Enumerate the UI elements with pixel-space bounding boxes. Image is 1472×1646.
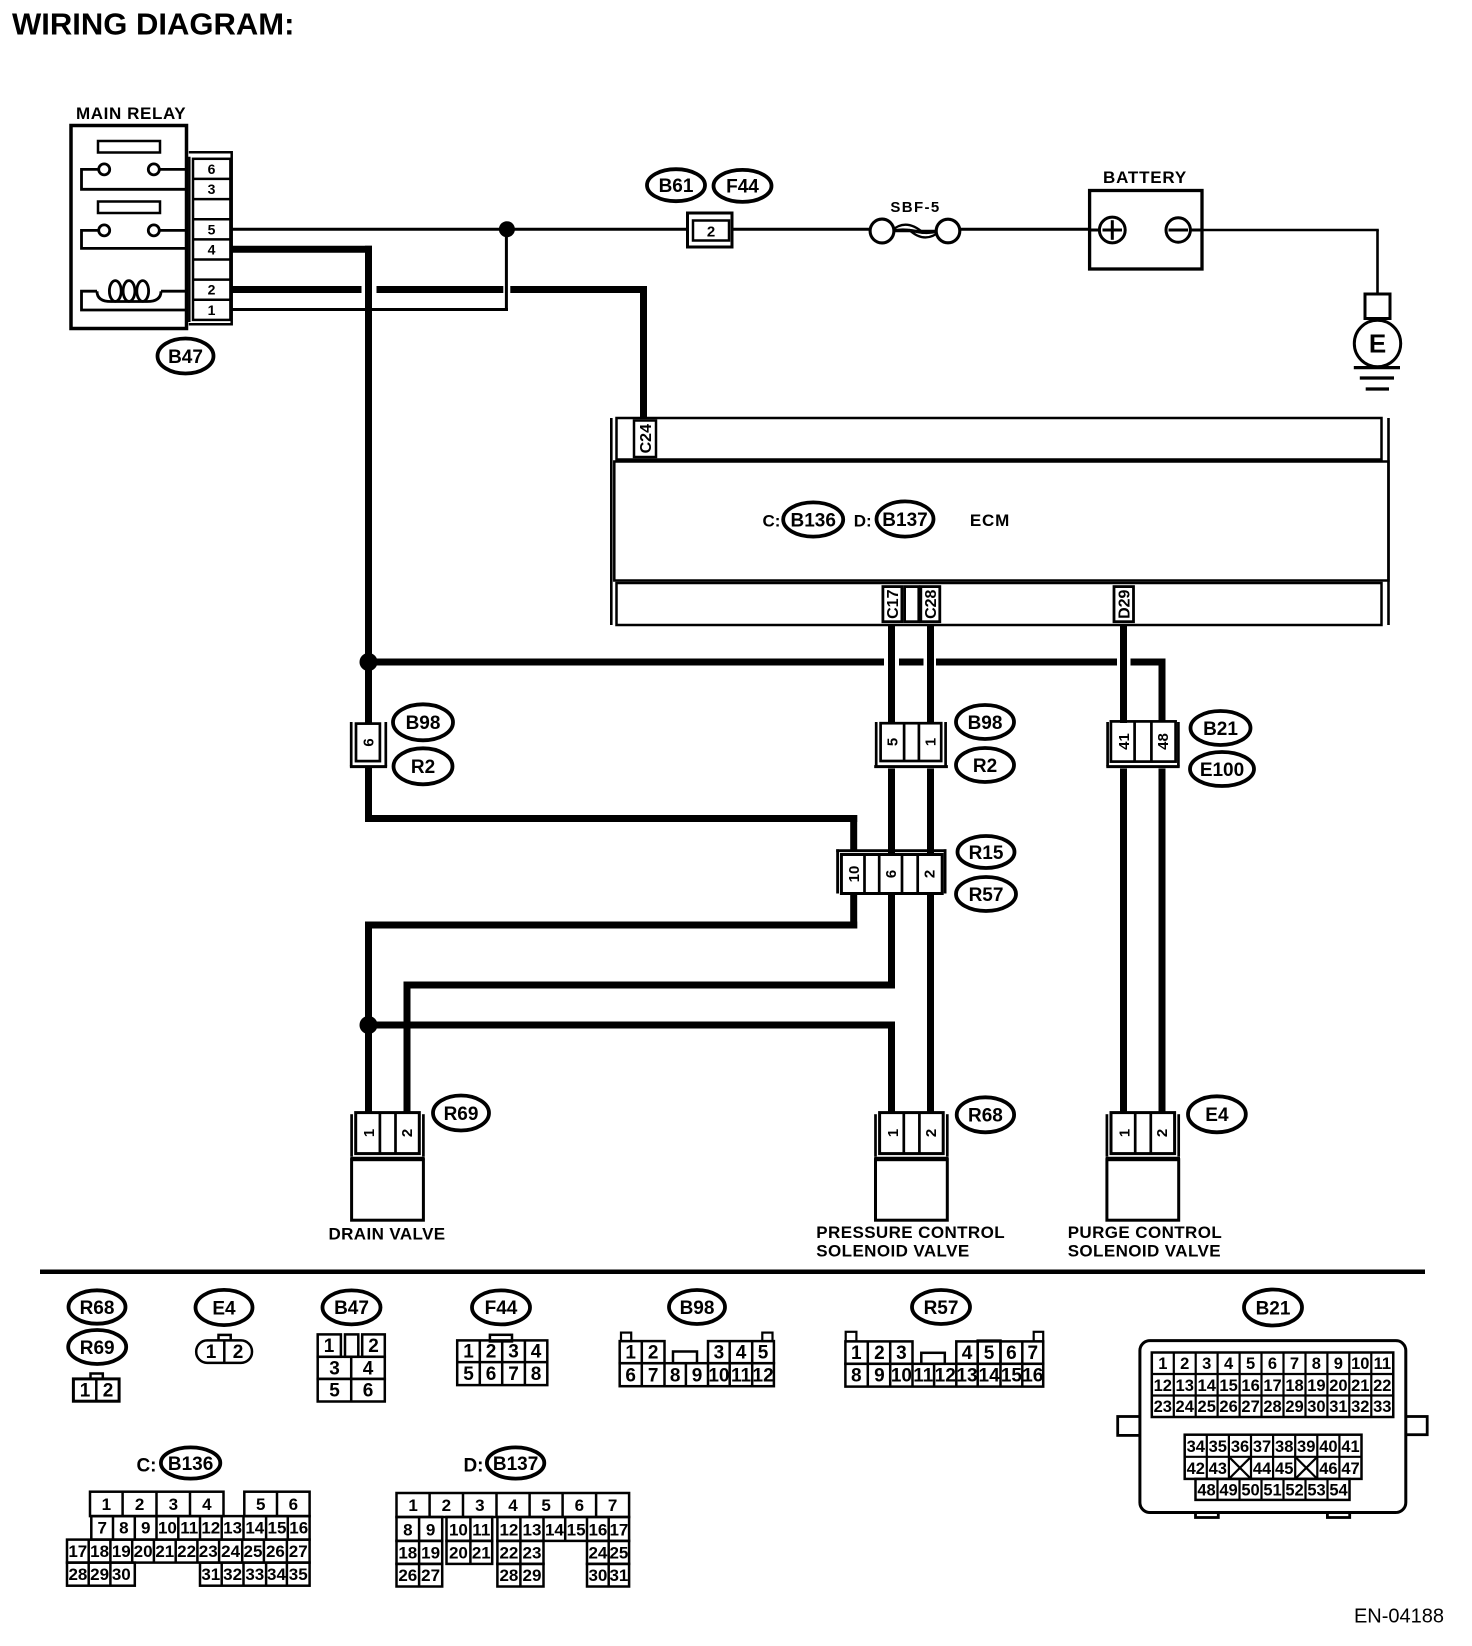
svg-text:2: 2 bbox=[707, 224, 715, 241]
svg-text:35: 35 bbox=[1209, 1438, 1227, 1456]
svg-text:4: 4 bbox=[202, 1495, 212, 1514]
wire relay pin2 to ECM C24 bbox=[232, 286, 647, 418]
svg-text:R57: R57 bbox=[924, 1298, 959, 1319]
svg-text:16: 16 bbox=[289, 1519, 308, 1538]
svg-text:5: 5 bbox=[541, 1496, 550, 1515]
svg-text:54: 54 bbox=[1329, 1481, 1348, 1499]
svg-text:5: 5 bbox=[463, 1364, 474, 1385]
inline connector pins 10/6/2 (R15/R57) bbox=[836, 849, 946, 893]
svg-text:15: 15 bbox=[567, 1520, 586, 1539]
connector B47 pin strip bbox=[189, 152, 232, 324]
svg-text:1: 1 bbox=[324, 1336, 335, 1357]
svg-text:2: 2 bbox=[648, 1343, 659, 1364]
svg-text:3: 3 bbox=[508, 1342, 519, 1363]
svg-text:B137: B137 bbox=[882, 510, 927, 531]
svg-text:SOLENOID VALVE: SOLENOID VALVE bbox=[816, 1242, 969, 1261]
svg-text:BATTERY: BATTERY bbox=[1103, 168, 1187, 187]
svg-text:6: 6 bbox=[625, 1365, 636, 1386]
svg-text:47: 47 bbox=[1341, 1460, 1359, 1478]
svg-text:25: 25 bbox=[609, 1543, 628, 1562]
svg-text:5: 5 bbox=[208, 221, 216, 237]
svg-text:36: 36 bbox=[1231, 1438, 1249, 1456]
svg-text:6: 6 bbox=[1268, 1355, 1277, 1373]
svg-text:22: 22 bbox=[1373, 1377, 1391, 1395]
svg-text:9: 9 bbox=[426, 1520, 435, 1539]
oval E4 (legend) bbox=[196, 1290, 253, 1325]
svg-text:D:: D: bbox=[463, 1456, 483, 1477]
svg-text:8: 8 bbox=[403, 1520, 412, 1539]
svg-text:1: 1 bbox=[361, 1129, 378, 1137]
svg-text:1: 1 bbox=[1116, 1129, 1133, 1137]
svg-text:45: 45 bbox=[1275, 1460, 1293, 1478]
wire relay pin1 bbox=[232, 229, 508, 309]
oval B47 bbox=[158, 339, 214, 374]
svg-text:2: 2 bbox=[368, 1336, 379, 1357]
svg-text:7: 7 bbox=[1290, 1355, 1299, 1373]
svg-text:19: 19 bbox=[1307, 1377, 1325, 1395]
svg-text:2: 2 bbox=[233, 1342, 244, 1363]
svg-text:15: 15 bbox=[1219, 1377, 1237, 1395]
svg-text:R2: R2 bbox=[411, 757, 435, 778]
svg-text:B136: B136 bbox=[790, 510, 835, 531]
svg-text:39: 39 bbox=[1297, 1438, 1315, 1456]
svg-text:7: 7 bbox=[608, 1496, 617, 1515]
svg-text:41: 41 bbox=[1116, 733, 1133, 750]
svg-text:SOLENOID VALVE: SOLENOID VALVE bbox=[1068, 1242, 1221, 1261]
oval R57 (legend) bbox=[912, 1290, 970, 1324]
oval F44 bbox=[714, 170, 772, 202]
oval R2 bbox=[394, 748, 453, 784]
svg-text:R15: R15 bbox=[969, 843, 1004, 864]
wire C28 down bbox=[927, 625, 934, 857]
svg-text:16: 16 bbox=[1022, 1366, 1043, 1387]
svg-text:3: 3 bbox=[208, 181, 216, 197]
svg-text:11: 11 bbox=[472, 1520, 490, 1539]
svg-text:11: 11 bbox=[731, 1365, 752, 1386]
wire pin2(R15) to pressure valve pin2 bbox=[927, 894, 934, 1113]
svg-text:16: 16 bbox=[588, 1520, 607, 1539]
svg-text:27: 27 bbox=[421, 1566, 440, 1585]
svg-text:38: 38 bbox=[1275, 1438, 1293, 1456]
svg-text:4: 4 bbox=[508, 1496, 518, 1515]
svg-text:1: 1 bbox=[102, 1495, 111, 1514]
oval B137 (legend) bbox=[487, 1447, 544, 1478]
svg-text:18: 18 bbox=[90, 1542, 109, 1561]
wire pin6(R15) to drain valve pin2 bbox=[404, 894, 896, 1113]
svg-text:53: 53 bbox=[1307, 1481, 1325, 1499]
svg-text:9: 9 bbox=[874, 1366, 885, 1387]
svg-text:52: 52 bbox=[1285, 1481, 1303, 1499]
svg-text:3: 3 bbox=[169, 1495, 178, 1514]
svg-text:C:: C: bbox=[762, 511, 780, 530]
oval E100 bbox=[1190, 752, 1254, 786]
svg-text:33: 33 bbox=[245, 1565, 264, 1584]
svg-text:1: 1 bbox=[80, 1381, 91, 1402]
svg-text:B98: B98 bbox=[968, 713, 1003, 734]
svg-text:5: 5 bbox=[758, 1343, 769, 1364]
svg-text:5: 5 bbox=[984, 1343, 995, 1364]
svg-text:SBF-5: SBF-5 bbox=[890, 199, 940, 216]
svg-text:5: 5 bbox=[1246, 1355, 1255, 1373]
svg-text:ECM: ECM bbox=[970, 511, 1010, 530]
svg-text:8: 8 bbox=[670, 1365, 681, 1386]
blank pin cell bbox=[905, 587, 919, 622]
svg-text:2: 2 bbox=[1180, 1355, 1189, 1373]
wire power bus bbox=[369, 659, 1166, 723]
svg-text:1: 1 bbox=[206, 1342, 217, 1363]
svg-text:13: 13 bbox=[223, 1519, 242, 1538]
svg-text:3: 3 bbox=[329, 1358, 340, 1379]
inline connector pins 41/48 (B21/E100) bbox=[1106, 721, 1179, 766]
ECM pin D29 bbox=[1114, 587, 1134, 622]
label C: bbox=[762, 511, 780, 530]
svg-text:28: 28 bbox=[499, 1566, 518, 1585]
svg-text:19: 19 bbox=[112, 1542, 131, 1561]
svg-text:26: 26 bbox=[398, 1566, 417, 1585]
svg-text:29: 29 bbox=[523, 1566, 542, 1585]
svg-text:24: 24 bbox=[588, 1543, 607, 1562]
wire 48 to purge valve pin2 bbox=[1159, 769, 1166, 1113]
oval R68 (legend) bbox=[69, 1290, 126, 1323]
svg-text:8: 8 bbox=[1312, 1355, 1321, 1373]
svg-text:B61: B61 bbox=[659, 176, 694, 197]
separator line bbox=[40, 1270, 1425, 1275]
fuse holder 2 (B61/F44) bbox=[688, 213, 733, 247]
svg-text:24: 24 bbox=[221, 1542, 240, 1561]
svg-text:3: 3 bbox=[714, 1343, 725, 1364]
svg-text:12: 12 bbox=[499, 1520, 518, 1539]
svg-text:4: 4 bbox=[208, 241, 216, 257]
svg-text:23: 23 bbox=[1154, 1398, 1172, 1416]
svg-text:14: 14 bbox=[1198, 1377, 1217, 1395]
ECM pin C24 bbox=[634, 421, 656, 458]
svg-text:22: 22 bbox=[499, 1543, 518, 1562]
svg-text:46: 46 bbox=[1319, 1460, 1337, 1478]
junction dot power bus bbox=[360, 653, 378, 671]
connector B136 pinout bbox=[67, 1492, 310, 1586]
svg-text:R69: R69 bbox=[80, 1338, 115, 1359]
svg-text:E4: E4 bbox=[212, 1298, 236, 1319]
svg-text:20: 20 bbox=[1329, 1377, 1347, 1395]
svg-text:2: 2 bbox=[1154, 1129, 1171, 1137]
svg-text:14: 14 bbox=[545, 1520, 564, 1539]
svg-text:37: 37 bbox=[1253, 1438, 1271, 1456]
svg-text:PURGE CONTROL: PURGE CONTROL bbox=[1068, 1223, 1222, 1242]
svg-text:51: 51 bbox=[1263, 1481, 1281, 1499]
svg-text:34: 34 bbox=[267, 1565, 286, 1584]
svg-text:1: 1 bbox=[408, 1496, 417, 1515]
svg-text:35: 35 bbox=[289, 1565, 308, 1584]
svg-text:8: 8 bbox=[851, 1366, 862, 1387]
battery bbox=[1090, 168, 1202, 269]
ground E bbox=[1354, 294, 1401, 389]
wire junction to drain valve pin1 bbox=[365, 1025, 372, 1113]
svg-text:3: 3 bbox=[1202, 1355, 1211, 1373]
svg-text:27: 27 bbox=[289, 1542, 308, 1561]
svg-text:31: 31 bbox=[609, 1566, 628, 1585]
svg-text:5: 5 bbox=[256, 1495, 265, 1514]
svg-text:7: 7 bbox=[648, 1365, 659, 1386]
oval R57 bbox=[956, 877, 1016, 911]
svg-text:15: 15 bbox=[1001, 1366, 1023, 1387]
svg-text:15: 15 bbox=[268, 1519, 287, 1538]
svg-text:1: 1 bbox=[625, 1343, 636, 1364]
svg-text:14: 14 bbox=[979, 1366, 1001, 1387]
svg-text:21: 21 bbox=[472, 1543, 491, 1562]
svg-text:4: 4 bbox=[531, 1342, 542, 1363]
svg-text:21: 21 bbox=[155, 1542, 174, 1561]
svg-text:28: 28 bbox=[1263, 1398, 1281, 1416]
svg-text:10: 10 bbox=[846, 866, 863, 883]
svg-text:41: 41 bbox=[1341, 1438, 1359, 1456]
oval R69 (drain) bbox=[433, 1096, 489, 1131]
svg-text:7: 7 bbox=[508, 1364, 519, 1385]
svg-text:1: 1 bbox=[208, 302, 216, 318]
oval R68 (pressure) bbox=[957, 1097, 1014, 1132]
svg-text:E4: E4 bbox=[1205, 1105, 1229, 1126]
svg-text:4: 4 bbox=[736, 1343, 747, 1364]
svg-text:2: 2 bbox=[135, 1495, 144, 1514]
svg-text:D:: D: bbox=[854, 511, 872, 530]
svg-text:6: 6 bbox=[208, 161, 216, 177]
wire pin6 to connector 10 bbox=[365, 767, 857, 852]
svg-text:4: 4 bbox=[363, 1358, 374, 1379]
main relay bbox=[71, 104, 187, 329]
svg-text:C17: C17 bbox=[885, 589, 902, 618]
svg-text:B137: B137 bbox=[493, 1454, 538, 1475]
svg-text:19: 19 bbox=[421, 1543, 440, 1562]
svg-text:EN-04188: EN-04188 bbox=[1354, 1606, 1444, 1628]
svg-text:31: 31 bbox=[201, 1565, 220, 1584]
oval E4 (purge) bbox=[1188, 1096, 1246, 1132]
svg-text:33: 33 bbox=[1373, 1398, 1391, 1416]
svg-text:8: 8 bbox=[531, 1364, 542, 1385]
svg-text:6: 6 bbox=[363, 1381, 374, 1402]
svg-text:13: 13 bbox=[1176, 1377, 1194, 1395]
label D: (legend) bbox=[463, 1456, 483, 1477]
connector R68/R69 pinout bbox=[73, 1374, 119, 1402]
oval R2 (2) bbox=[956, 748, 1014, 782]
svg-text:30: 30 bbox=[1307, 1398, 1325, 1416]
svg-text:6: 6 bbox=[883, 870, 900, 878]
svg-text:MAIN RELAY: MAIN RELAY bbox=[76, 104, 186, 123]
ECM bbox=[611, 418, 1388, 625]
svg-text:12: 12 bbox=[201, 1519, 220, 1538]
svg-text:PRESSURE CONTROL: PRESSURE CONTROL bbox=[816, 1223, 1005, 1242]
label D: bbox=[854, 511, 872, 530]
svg-text:7: 7 bbox=[1028, 1343, 1039, 1364]
svg-text:6: 6 bbox=[575, 1496, 584, 1515]
svg-text:1: 1 bbox=[922, 738, 939, 746]
svg-text:17: 17 bbox=[1263, 1377, 1281, 1395]
svg-text:48: 48 bbox=[1197, 1481, 1215, 1499]
svg-text:12: 12 bbox=[935, 1366, 956, 1387]
svg-text:B47: B47 bbox=[168, 347, 203, 368]
svg-text:2: 2 bbox=[399, 1129, 416, 1137]
svg-text:13: 13 bbox=[523, 1520, 542, 1539]
svg-text:R68: R68 bbox=[968, 1106, 1003, 1127]
svg-text:21: 21 bbox=[1351, 1377, 1369, 1395]
svg-text:2: 2 bbox=[442, 1496, 451, 1515]
svg-text:40: 40 bbox=[1319, 1438, 1337, 1456]
svg-text:28: 28 bbox=[68, 1565, 87, 1584]
svg-text:1: 1 bbox=[885, 1129, 902, 1137]
svg-text:25: 25 bbox=[244, 1542, 263, 1561]
svg-text:24: 24 bbox=[1176, 1398, 1195, 1416]
svg-text:29: 29 bbox=[1285, 1398, 1303, 1416]
svg-text:34: 34 bbox=[1187, 1438, 1206, 1456]
svg-text:R68: R68 bbox=[80, 1298, 115, 1319]
svg-text:B21: B21 bbox=[1256, 1298, 1291, 1319]
oval F44 (legend) bbox=[472, 1290, 530, 1324]
junction dot drain bbox=[360, 1016, 378, 1034]
svg-text:10: 10 bbox=[1351, 1355, 1369, 1373]
pressure control solenoid valve bbox=[816, 1113, 1005, 1261]
svg-text:17: 17 bbox=[68, 1542, 87, 1561]
svg-text:16: 16 bbox=[1241, 1377, 1259, 1395]
title WIRING DIAGRAM bbox=[12, 7, 294, 42]
svg-text:B98: B98 bbox=[680, 1298, 715, 1319]
connector B137 pinout bbox=[397, 1493, 630, 1587]
connector B21 pinout bbox=[1118, 1341, 1428, 1518]
svg-text:30: 30 bbox=[112, 1565, 131, 1584]
svg-text:1: 1 bbox=[1158, 1355, 1167, 1373]
wire battery to ground bbox=[1202, 230, 1379, 294]
svg-text:18: 18 bbox=[1285, 1377, 1303, 1395]
svg-text:B98: B98 bbox=[406, 713, 441, 734]
svg-text:2: 2 bbox=[486, 1342, 497, 1363]
svg-text:6: 6 bbox=[360, 738, 377, 746]
svg-text:29: 29 bbox=[90, 1565, 109, 1584]
wire C17 down bbox=[888, 625, 895, 857]
svg-text:1: 1 bbox=[463, 1342, 474, 1363]
oval B137 (ECM) bbox=[877, 501, 934, 536]
svg-text:3: 3 bbox=[475, 1496, 484, 1515]
oval B21 (legend) bbox=[1244, 1290, 1302, 1326]
svg-text:8: 8 bbox=[119, 1519, 128, 1538]
svg-text:6: 6 bbox=[289, 1495, 298, 1514]
oval B98 (2) bbox=[956, 705, 1014, 739]
oval R69 (legend) bbox=[68, 1330, 126, 1364]
svg-text:DRAIN VALVE: DRAIN VALVE bbox=[328, 1225, 445, 1244]
svg-text:R57: R57 bbox=[969, 885, 1004, 906]
svg-text:F44: F44 bbox=[726, 177, 759, 198]
svg-text:11: 11 bbox=[180, 1519, 198, 1538]
svg-text:18: 18 bbox=[398, 1543, 417, 1562]
svg-text:10: 10 bbox=[158, 1519, 177, 1538]
svg-text:50: 50 bbox=[1241, 1481, 1259, 1499]
purge control solenoid valve bbox=[1068, 1113, 1222, 1261]
wire pin10 to drain junction bbox=[365, 894, 857, 1026]
svg-text:F44: F44 bbox=[485, 1298, 518, 1319]
fuse SBF-5 bbox=[870, 199, 960, 243]
inline connector pins 5/1 (B98/R2) bbox=[874, 722, 948, 767]
svg-text:26: 26 bbox=[266, 1542, 285, 1561]
svg-text:2: 2 bbox=[208, 282, 216, 298]
svg-text:B136: B136 bbox=[168, 1454, 213, 1475]
connector F44 pinout bbox=[457, 1335, 547, 1385]
junction dot bbox=[499, 221, 515, 237]
oval B136 (ECM) bbox=[783, 502, 843, 536]
svg-text:E: E bbox=[1369, 329, 1386, 359]
svg-text:12: 12 bbox=[753, 1365, 774, 1386]
svg-text:14: 14 bbox=[245, 1519, 264, 1538]
svg-text:25: 25 bbox=[1198, 1398, 1216, 1416]
drain valve bbox=[328, 1113, 445, 1244]
wire relay pin5 to fuse/battery bbox=[232, 228, 1100, 231]
ECM pin C17 bbox=[883, 587, 902, 622]
svg-text:6: 6 bbox=[486, 1364, 497, 1385]
connector B47 pinout bbox=[318, 1334, 385, 1401]
svg-text:10: 10 bbox=[708, 1365, 729, 1386]
connector B98 pinout bbox=[620, 1333, 774, 1387]
connector E4 pinout bbox=[196, 1335, 252, 1363]
oval B21 bbox=[1191, 711, 1251, 745]
svg-text:C:: C: bbox=[136, 1456, 156, 1477]
svg-text:23: 23 bbox=[199, 1542, 218, 1561]
svg-text:7: 7 bbox=[97, 1519, 106, 1538]
svg-text:9: 9 bbox=[141, 1519, 150, 1538]
svg-text:27: 27 bbox=[1241, 1398, 1259, 1416]
svg-text:12: 12 bbox=[1154, 1377, 1172, 1395]
svg-text:R2: R2 bbox=[973, 756, 997, 777]
svg-text:13: 13 bbox=[956, 1366, 977, 1387]
svg-text:6: 6 bbox=[1006, 1343, 1017, 1364]
inline connector pin 6 (B98/R2) bbox=[350, 722, 387, 767]
svg-text:4: 4 bbox=[1224, 1355, 1234, 1373]
svg-text:11: 11 bbox=[913, 1366, 934, 1387]
svg-text:C28: C28 bbox=[923, 589, 940, 618]
svg-text:22: 22 bbox=[177, 1542, 196, 1561]
svg-text:C24: C24 bbox=[638, 424, 655, 453]
svg-text:2: 2 bbox=[923, 1129, 940, 1137]
svg-text:20: 20 bbox=[449, 1543, 468, 1562]
wire relay pin4 down bbox=[232, 246, 372, 723]
oval B47 (legend) bbox=[323, 1290, 381, 1324]
label C: (legend) bbox=[136, 1456, 156, 1477]
svg-text:32: 32 bbox=[223, 1565, 242, 1584]
wire junction to pressure valve pin1 bbox=[365, 1022, 895, 1113]
svg-text:E100: E100 bbox=[1200, 760, 1244, 781]
svg-text:30: 30 bbox=[588, 1566, 607, 1585]
oval B136 (legend) bbox=[161, 1447, 220, 1478]
svg-text:B21: B21 bbox=[1203, 719, 1238, 740]
svg-text:2: 2 bbox=[103, 1381, 114, 1402]
svg-text:43: 43 bbox=[1209, 1460, 1227, 1478]
svg-text:10: 10 bbox=[449, 1520, 468, 1539]
svg-text:9: 9 bbox=[1334, 1355, 1343, 1373]
svg-text:R69: R69 bbox=[444, 1104, 479, 1125]
svg-text:4: 4 bbox=[962, 1343, 973, 1364]
oval B61 bbox=[647, 169, 705, 201]
svg-text:9: 9 bbox=[692, 1365, 703, 1386]
oval R15 bbox=[958, 836, 1015, 868]
svg-text:D29: D29 bbox=[1117, 589, 1134, 618]
svg-text:31: 31 bbox=[1329, 1398, 1347, 1416]
svg-text:2: 2 bbox=[921, 870, 938, 878]
svg-text:5: 5 bbox=[885, 738, 902, 746]
svg-text:2: 2 bbox=[874, 1343, 885, 1364]
svg-text:10: 10 bbox=[891, 1366, 912, 1387]
svg-text:23: 23 bbox=[523, 1543, 542, 1562]
svg-text:42: 42 bbox=[1187, 1460, 1205, 1478]
wire D29 down bbox=[1120, 625, 1127, 1113]
svg-text:1: 1 bbox=[851, 1343, 862, 1364]
svg-text:48: 48 bbox=[1155, 733, 1172, 750]
svg-text:49: 49 bbox=[1219, 1481, 1237, 1499]
svg-text:44: 44 bbox=[1253, 1460, 1272, 1478]
svg-text:11: 11 bbox=[1374, 1355, 1391, 1373]
